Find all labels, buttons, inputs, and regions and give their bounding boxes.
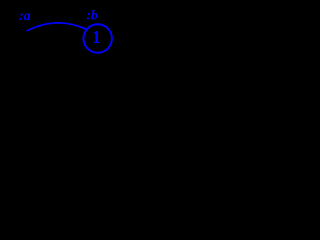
svg-text::b: :b (86, 9, 98, 24)
svg-text:1: 1 (92, 27, 101, 47)
node 1 circle (84, 24, 112, 52)
wire: curved edge from node :a to node :b (27, 23, 87, 31)
svg-text::a: :a (19, 9, 31, 24)
